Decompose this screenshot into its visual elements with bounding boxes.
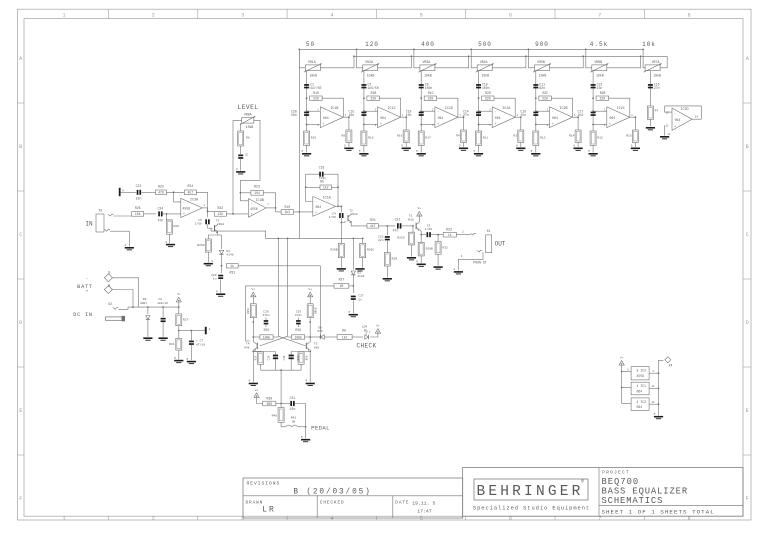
wire <box>621 365 623 403</box>
resistor R8b <box>337 329 352 340</box>
wire <box>340 258 342 268</box>
wire <box>281 422 285 427</box>
transistor T4 <box>244 342 257 351</box>
title block revisions box <box>243 478 463 518</box>
wire <box>142 191 156 193</box>
wire <box>310 336 337 338</box>
wire <box>363 71 365 131</box>
svg-text:+: + <box>494 122 496 126</box>
svg-text:C29: C29 <box>268 355 271 360</box>
wire <box>324 174 338 206</box>
wire <box>340 223 342 244</box>
capacitor C7 <box>189 340 205 347</box>
wire <box>306 110 321 112</box>
svg-text:R41: R41 <box>291 417 297 420</box>
wire <box>642 49 645 68</box>
svg-text:IC1B: IC1B <box>330 107 338 111</box>
svg-text:PEDAL: PEDAL <box>311 424 330 431</box>
wire <box>245 286 334 341</box>
svg-text:5: 5 <box>420 516 423 522</box>
ground <box>516 145 525 151</box>
wire <box>257 397 263 403</box>
svg-text:DRAWN: DRAWN <box>246 501 264 506</box>
svg-text:120: 120 <box>365 41 379 48</box>
svg-text:15n: 15n <box>520 113 526 117</box>
svg-text:10kB: 10kB <box>309 74 317 78</box>
capacitor C28 <box>291 109 309 117</box>
ground <box>159 337 168 340</box>
wire <box>341 221 345 223</box>
svg-text:4k7: 4k7 <box>370 224 376 228</box>
svg-text:R38: R38 <box>304 356 307 361</box>
svg-text:10kB: 10kB <box>424 74 432 78</box>
capacitor C26 <box>262 310 269 324</box>
node feedback bus <box>354 55 667 57</box>
svg-text:220: 220 <box>599 97 605 101</box>
op-amp IC1A <box>313 196 336 216</box>
svg-text:X3: X3 <box>99 209 103 213</box>
wire <box>363 146 365 153</box>
svg-text:IC2B: IC2B <box>559 107 567 111</box>
svg-text:12: 12 <box>665 124 669 127</box>
svg-text:064: 064 <box>552 116 558 120</box>
svg-text:R32: R32 <box>442 247 448 250</box>
svg-text:V+: V+ <box>417 207 421 210</box>
svg-text:-: - <box>674 111 676 115</box>
wire <box>306 146 308 153</box>
capacitor C4 <box>329 212 344 219</box>
svg-text:R36: R36 <box>295 328 301 332</box>
svg-text:C3: C3 <box>427 225 431 228</box>
svg-text:IC1C: IC1C <box>388 107 396 111</box>
potentiometer VR7A <box>644 60 662 78</box>
wire <box>166 214 168 220</box>
svg-text:R25D: R25D <box>397 236 404 239</box>
ground <box>454 268 463 274</box>
wire <box>261 364 302 370</box>
svg-text:4 IC1: 4 IC1 <box>637 384 647 388</box>
svg-text:DATE: DATE <box>395 501 409 506</box>
supply V+ arrow <box>375 324 380 333</box>
ground <box>434 266 443 269</box>
capacitor C16 <box>319 165 327 180</box>
ground <box>166 241 176 247</box>
wire <box>277 238 279 337</box>
svg-text:47n: 47n <box>393 229 399 233</box>
svg-text:C30: C30 <box>283 355 286 360</box>
capacitor C6 <box>238 153 247 159</box>
svg-text:C26: C26 <box>263 310 269 313</box>
ground <box>174 357 183 363</box>
wire <box>418 217 420 223</box>
wire <box>401 116 408 130</box>
svg-text:+: + <box>323 122 325 126</box>
resistor R26C <box>360 243 375 257</box>
wire <box>370 333 378 337</box>
svg-text:REVISIONS: REVISIONS <box>247 480 281 486</box>
svg-text:19.11. 5: 19.11. 5 <box>412 501 435 507</box>
wire <box>291 352 310 371</box>
svg-text:11: 11 <box>651 385 655 388</box>
svg-text:IC3B: IC3B <box>256 199 264 203</box>
svg-text:E: E <box>19 408 22 414</box>
svg-text:R8: R8 <box>342 329 346 333</box>
svg-text:-: - <box>315 199 317 203</box>
wire <box>592 146 594 153</box>
resistor R4 <box>456 130 466 143</box>
wire <box>278 336 305 346</box>
svg-text:X4: X4 <box>669 364 673 368</box>
svg-text:4007: 4007 <box>140 302 147 305</box>
transistor T3 <box>215 219 225 233</box>
resistor R39 <box>263 397 276 406</box>
svg-text:R2B: R2B <box>392 258 398 261</box>
ground <box>125 244 134 250</box>
svg-text:400: 400 <box>421 41 435 48</box>
svg-text:+: + <box>380 122 382 126</box>
ground <box>383 278 392 281</box>
wire <box>348 143 350 148</box>
node BATT label <box>77 284 93 290</box>
svg-text:R12: R12 <box>597 137 603 140</box>
wire <box>287 238 289 337</box>
wire <box>211 231 363 238</box>
node VB bar <box>205 327 211 335</box>
svg-text:R28: R28 <box>135 206 141 210</box>
svg-text:1/50: 1/50 <box>195 221 202 225</box>
capacitor C22 <box>378 235 390 242</box>
wire <box>362 258 364 268</box>
svg-text:4558: 4558 <box>637 374 645 378</box>
svg-text:10n: 10n <box>348 113 354 117</box>
svg-text:220: 220 <box>485 97 491 101</box>
node band 10k frequency label <box>642 41 656 48</box>
wire <box>336 205 343 207</box>
svg-text:R1C: R1C <box>428 91 434 95</box>
svg-text:VR8A: VR8A <box>244 113 252 117</box>
supply V+ arrow <box>254 389 259 398</box>
svg-text:F: F <box>19 496 22 502</box>
wire <box>665 106 702 119</box>
svg-text:IC2C: IC2C <box>617 107 625 111</box>
svg-text:R33: R33 <box>446 228 452 232</box>
title text DRAWN <box>246 501 276 515</box>
svg-text:R35C: R35C <box>247 307 250 314</box>
wire <box>305 336 311 338</box>
svg-text:1M: 1M <box>340 284 344 288</box>
svg-text:1n: 1n <box>213 278 217 281</box>
resistor R27b <box>176 314 189 326</box>
svg-text:E: E <box>746 408 749 414</box>
svg-text:4: 4 <box>330 12 333 18</box>
potentiometer VR6B <box>590 60 608 78</box>
ground <box>631 145 640 151</box>
svg-text:946: 946 <box>244 346 250 349</box>
resistor R28B <box>418 242 433 256</box>
svg-text:220: 220 <box>542 97 548 101</box>
svg-text:100k: 100k <box>263 335 271 339</box>
wire <box>420 234 422 243</box>
wire <box>305 186 339 188</box>
wire <box>261 369 302 371</box>
svg-text:CHECK: CHECK <box>356 342 376 349</box>
wire <box>420 71 422 131</box>
resistor R9 <box>341 130 351 143</box>
resistor R40 <box>272 408 285 423</box>
op-amp IC2C <box>604 107 633 128</box>
svg-text:13: 13 <box>665 111 669 114</box>
resistor R32 <box>435 242 448 255</box>
svg-text:C: C <box>746 232 749 238</box>
capacitor C23 <box>136 184 142 201</box>
wire <box>435 55 470 67</box>
ground <box>236 168 245 174</box>
resistor R26D <box>197 239 211 252</box>
wire <box>218 234 222 236</box>
svg-text:10k: 10k <box>642 41 656 48</box>
wire <box>298 426 307 428</box>
connector X3 jack IN <box>85 209 104 233</box>
svg-text:1k2: 1k2 <box>342 335 348 339</box>
node band 4.5k frequency label <box>590 41 608 48</box>
ground <box>143 337 152 340</box>
svg-text:4u7/50: 4u7/50 <box>310 86 321 90</box>
svg-text:1u5/50: 1u5/50 <box>367 86 378 90</box>
title text SCHEMATICS <box>602 496 664 506</box>
svg-text:1/50: 1/50 <box>425 227 432 231</box>
svg-text:IC2A: IC2A <box>502 107 511 111</box>
svg-text:VR2A: VR2A <box>365 60 373 64</box>
node band 400 frequency label <box>421 41 435 48</box>
resistor R20 <box>166 220 179 234</box>
svg-text:V+: V+ <box>620 356 624 359</box>
svg-text:064: 064 <box>438 116 444 120</box>
connector battery minus <box>86 271 113 282</box>
resistor R22 <box>214 206 226 216</box>
op-amp IC1B <box>317 107 346 128</box>
wire <box>167 220 173 243</box>
svg-text:C25: C25 <box>296 310 302 313</box>
svg-text:R37: R37 <box>255 355 258 360</box>
ground <box>301 436 310 442</box>
svg-text:14: 14 <box>695 116 699 119</box>
wire <box>220 280 222 293</box>
resistor R1B <box>363 91 379 100</box>
resistor R36 <box>292 328 305 339</box>
svg-text:R7: R7 <box>655 110 659 113</box>
ground <box>588 150 598 156</box>
svg-text:-: - <box>380 110 382 114</box>
connector battery plus <box>86 284 113 295</box>
wire <box>463 143 465 148</box>
title text CHECKED <box>320 501 345 506</box>
capacitor C29b <box>268 355 279 361</box>
svg-text:B: B <box>746 144 749 150</box>
svg-text:SCHEMATICS: SCHEMATICS <box>602 496 664 506</box>
svg-text:10n: 10n <box>290 407 296 411</box>
svg-text:4: 4 <box>330 516 333 522</box>
diode D8 <box>317 326 324 339</box>
svg-text:R27: R27 <box>339 277 345 281</box>
wire <box>437 254 439 266</box>
svg-text:LR: LR <box>262 506 276 515</box>
svg-text:220: 220 <box>428 97 434 101</box>
svg-text:+: + <box>609 122 611 126</box>
ground <box>187 358 196 364</box>
svg-text:C5: C5 <box>198 219 202 222</box>
wire <box>263 193 275 212</box>
svg-text:4148: 4148 <box>226 254 233 257</box>
svg-text:+: + <box>552 122 554 126</box>
svg-text:T1: T1 <box>409 215 413 218</box>
jack sleeve contact <box>477 250 483 252</box>
capacitor C19 <box>520 109 538 117</box>
svg-text:X4: X4 <box>487 229 491 233</box>
svg-text:VR5B: VR5B <box>537 60 545 64</box>
wire <box>585 49 592 68</box>
svg-text:B16: B16 <box>408 218 414 221</box>
capacitor C21 <box>393 218 402 233</box>
svg-text:50: 50 <box>306 41 315 48</box>
capacitor C8 <box>157 298 168 322</box>
svg-text:-: - <box>183 201 185 205</box>
capacitor C11 <box>533 82 545 90</box>
svg-text:VR7A: VR7A <box>652 60 660 64</box>
wire <box>208 232 217 239</box>
capacitor C14 <box>463 109 481 117</box>
svg-text:470n: 470n <box>262 314 269 317</box>
wire <box>179 330 193 332</box>
wire <box>207 212 209 218</box>
ground <box>416 261 425 267</box>
svg-text:104: 104 <box>254 191 260 195</box>
svg-text:22n: 22n <box>136 196 142 200</box>
wire <box>665 106 672 112</box>
resistor R2B <box>592 91 608 100</box>
ground <box>654 413 663 419</box>
svg-text:-: - <box>86 277 89 282</box>
svg-text:R2C: R2C <box>542 91 548 95</box>
supply V+ arrow <box>417 207 422 216</box>
svg-text:1k2: 1k2 <box>323 186 329 190</box>
wire <box>378 225 395 227</box>
wire <box>319 266 321 337</box>
resistor R3 <box>513 130 523 143</box>
svg-text:-: - <box>552 110 554 114</box>
svg-text:R25: R25 <box>158 185 164 189</box>
wire <box>535 146 537 153</box>
wire <box>420 124 435 126</box>
wire <box>202 208 214 213</box>
wire <box>144 213 156 215</box>
ground <box>355 268 364 271</box>
svg-text:+: + <box>183 212 185 216</box>
resistor R38 <box>298 352 307 364</box>
svg-text:D8: D8 <box>318 326 322 329</box>
wire <box>252 342 254 383</box>
wire <box>253 352 275 371</box>
svg-text:4 IC2: 4 IC2 <box>637 400 647 404</box>
node DC IN label <box>73 312 93 318</box>
wire <box>163 213 181 215</box>
wire <box>478 146 480 153</box>
svg-text:BEQ700: BEQ700 <box>602 477 640 487</box>
svg-text:470n: 470n <box>295 314 302 317</box>
wire <box>276 211 282 213</box>
svg-text:IC1D: IC1D <box>445 107 453 111</box>
svg-text:+: + <box>86 290 89 295</box>
wire <box>649 370 659 374</box>
wire <box>119 307 129 309</box>
svg-text:V+: V+ <box>376 324 380 327</box>
svg-text:10kB: 10kB <box>246 125 254 129</box>
wire <box>128 306 179 308</box>
svg-text:C29: C29 <box>211 274 217 277</box>
wire <box>288 336 292 338</box>
wire <box>298 237 300 239</box>
svg-text:C4: C4 <box>332 212 336 215</box>
LED LD4 <box>362 326 370 543</box>
wire <box>280 404 282 408</box>
svg-text:1n: 1n <box>358 298 362 301</box>
supply V+ arrow <box>176 293 181 302</box>
op-amp IC1D <box>432 107 461 128</box>
svg-text:T5: T5 <box>314 343 318 346</box>
wire <box>649 401 659 405</box>
wire <box>413 49 420 68</box>
svg-text:VR1A: VR1A <box>308 60 316 64</box>
logo BEHRINGER text <box>476 479 584 500</box>
op-amp IC3B <box>248 199 269 218</box>
svg-text:8: 8 <box>688 516 691 522</box>
wire <box>340 206 342 212</box>
wire <box>294 211 313 213</box>
svg-text:R31: R31 <box>229 270 235 274</box>
wire <box>240 192 249 201</box>
wire <box>306 174 321 201</box>
capacitor C31 <box>290 396 296 411</box>
diode D6 <box>140 298 150 319</box>
node switch R41 <box>286 417 298 427</box>
resistor R24 <box>184 184 196 194</box>
resistor R2B <box>384 253 397 267</box>
wire <box>226 213 248 215</box>
supply V+ arrow <box>619 356 624 365</box>
svg-text:1k: 1k <box>230 264 234 268</box>
wire <box>233 120 242 213</box>
svg-text:R24: R24 <box>187 184 193 188</box>
svg-text:C27: C27 <box>358 295 364 298</box>
resistor R18 <box>361 131 374 146</box>
wire <box>363 124 378 126</box>
svg-text:R15: R15 <box>540 137 546 140</box>
svg-text:7: 7 <box>598 12 601 18</box>
svg-text:12k: 12k <box>217 212 223 216</box>
svg-text:R10: R10 <box>313 91 319 95</box>
wire <box>478 110 493 112</box>
wire <box>121 191 137 193</box>
svg-text:R28B: R28B <box>426 247 433 250</box>
capacitor C30 <box>283 354 299 362</box>
svg-text:846: 846 <box>314 346 320 349</box>
resistor R33 <box>443 228 456 237</box>
resistor R35 <box>260 328 273 339</box>
wire <box>240 192 251 194</box>
wire <box>550 55 585 67</box>
wire <box>405 143 407 148</box>
svg-text:C: C <box>19 232 22 238</box>
svg-text:6: 6 <box>509 516 512 522</box>
